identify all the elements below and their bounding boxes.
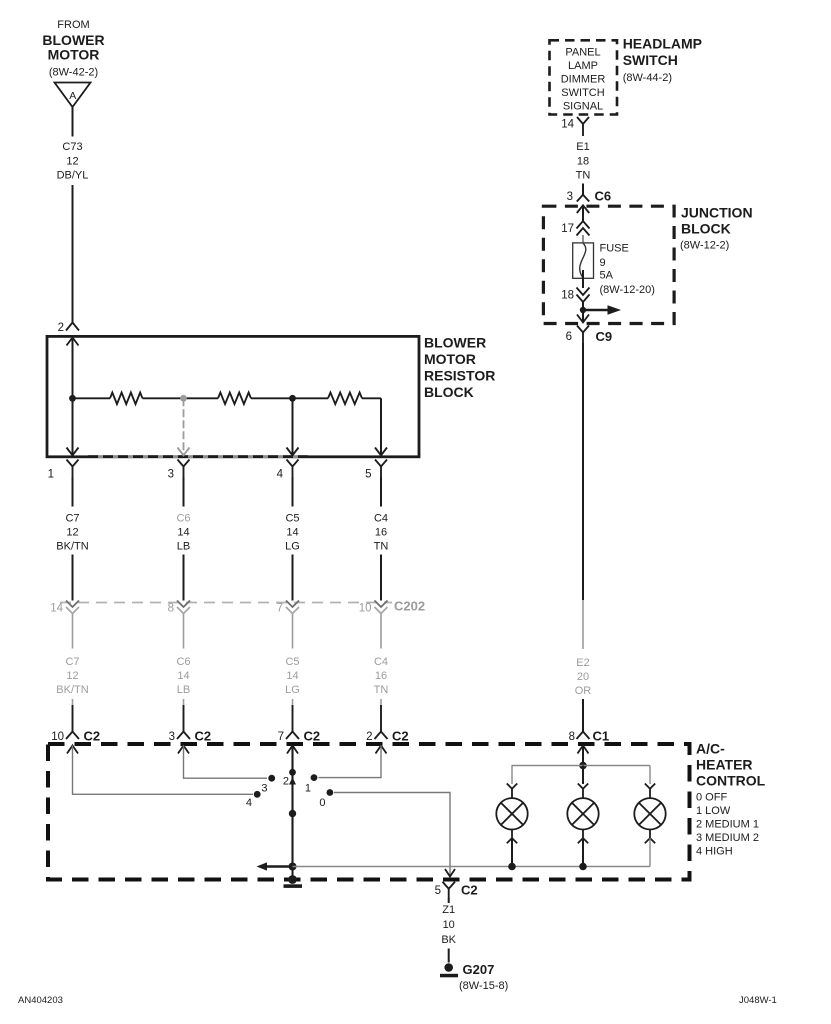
svg-text:18: 18 [561, 290, 574, 302]
svg-text:16: 16 [375, 527, 387, 539]
svg-text:1: 1 [305, 783, 311, 795]
wire C9 down (black) [582, 343, 584, 600]
switch contact 4 [246, 791, 261, 809]
wire C9 down (faded) [582, 600, 584, 649]
svg-text:C2: C2 [392, 729, 409, 744]
svg-text:PANEL: PANEL [565, 47, 600, 59]
pin 3 entry arrow [178, 746, 189, 754]
C202 pin 10 chevrons [359, 601, 388, 615]
wire C7 to pin 10 C2 (faded) [72, 699, 74, 705]
svg-text:17: 17 [561, 223, 574, 235]
pin 3 exit arrow (faded) [178, 448, 190, 456]
svg-text:8: 8 [168, 603, 174, 615]
connector C202 dashed line [60, 602, 392, 604]
svg-text:5: 5 [365, 469, 371, 481]
svg-text:C73: C73 [62, 141, 82, 153]
switch contact 0 [319, 789, 333, 809]
svg-text:HEADLAMP: HEADLAMP [623, 36, 702, 52]
C202 pin 14 chevrons [50, 601, 79, 615]
wire C4 below C202 (faded) [380, 614, 382, 649]
svg-text:1: 1 [48, 469, 54, 481]
svg-text:2: 2 [58, 322, 64, 334]
svg-text:MOTOR: MOTOR [424, 351, 476, 367]
svg-text:E1: E1 [576, 141, 589, 153]
svg-text:C6: C6 [176, 656, 190, 668]
C202 pin 7 chevrons [277, 601, 299, 615]
wire pin2 to contact 1 [319, 746, 382, 778]
svg-text:SIGNAL: SIGNAL [563, 101, 603, 113]
svg-text:4: 4 [246, 797, 252, 809]
svg-text:C6: C6 [595, 189, 612, 204]
illumination lamp 3 [634, 784, 665, 867]
drop wire to pin 3 (faded) [183, 398, 185, 455]
wire C6 to pin 3 C2 (faded) [183, 699, 185, 705]
label HEADLAMP SWITCH [623, 36, 702, 85]
wire C5 below C202 (faded) [292, 614, 294, 649]
wire label Z1 10 BK [441, 904, 456, 946]
pin 2 connector fork at resistor block [58, 322, 79, 334]
connector triangle A (from blower motor) [55, 83, 91, 108]
svg-text:2: 2 [366, 731, 372, 743]
wire pin18 to junction dot [582, 301, 584, 323]
svg-text:C4: C4 [374, 513, 388, 525]
svg-text:10: 10 [443, 919, 455, 931]
wire pin10 to contact 4 [73, 746, 254, 795]
svg-text:1 LOW: 1 LOW [696, 805, 731, 817]
label BLOWER MOTOR RESISTOR BLOCK [424, 335, 495, 401]
pin 1 exit arrow [67, 448, 79, 456]
wire C5 to pin 7 C2 (faded) [292, 699, 294, 705]
svg-text:G207: G207 [463, 962, 495, 977]
lamp 1 feed drop [511, 766, 513, 785]
C202 pin 8 chevrons [168, 601, 190, 615]
wire label C4 16 TN (faded) [374, 656, 389, 696]
drop wire to pin 1 [72, 398, 74, 455]
svg-text:3: 3 [168, 469, 174, 481]
svg-text:C7: C7 [65, 513, 79, 525]
pin 10 entry arrow [67, 746, 78, 754]
svg-text:12: 12 [66, 156, 78, 168]
resistor R3 [328, 393, 362, 405]
pin 4 exit arrow [287, 448, 299, 456]
wire label E2 20 OR (faded) [575, 657, 592, 697]
branch arrow right [583, 305, 621, 315]
wire label C73 12 DB/YL [57, 141, 89, 182]
junction block entry arrow [577, 205, 589, 213]
pin 5 fork below box [365, 460, 387, 481]
illumination lamp 2 [567, 784, 598, 867]
svg-text:RESISTOR: RESISTOR [424, 368, 495, 384]
wire entry to pin 17 [582, 205, 584, 221]
svg-text:5A: 5A [600, 270, 614, 282]
wire C73 upper segment [72, 107, 74, 137]
svg-text:14: 14 [50, 603, 63, 615]
svg-text:16: 16 [375, 670, 387, 682]
svg-text:LB: LB [177, 541, 190, 553]
wire fuse to pin 18 [582, 270, 584, 288]
svg-text:LG: LG [285, 541, 300, 553]
wire pin3 to contact 3 [184, 746, 268, 779]
pin 7 C2 fork [278, 729, 321, 744]
svg-text:10: 10 [51, 731, 64, 743]
wire C4 to C202 [380, 555, 382, 601]
switch contact 2 [283, 769, 296, 788]
wire Z1 lower [448, 949, 450, 963]
svg-text:AN404203: AN404203 [18, 995, 63, 1006]
resistor R1 [110, 393, 142, 405]
junction dot pin1 branch [69, 395, 76, 402]
pin 5 C2 fork below box [435, 882, 478, 898]
svg-text:6: 6 [566, 331, 572, 343]
svg-text:C2: C2 [304, 729, 321, 744]
svg-text:2: 2 [283, 776, 289, 788]
svg-text:LG: LG [285, 684, 300, 696]
wire label C4 16 TN [374, 513, 389, 553]
pin 2 entry arrow [376, 746, 387, 754]
label A/C-HEATER CONTROL [696, 741, 766, 858]
lamp 1 return junction dot [508, 863, 516, 871]
svg-text:0: 0 [319, 797, 325, 809]
svg-text:C2: C2 [84, 729, 101, 744]
svg-text:J048W-1: J048W-1 [739, 995, 777, 1006]
pin 14 fork below headlamp switch [561, 117, 589, 136]
wire C6 to C202 [183, 555, 185, 601]
switch contact 3 [261, 775, 275, 795]
ground G207 [440, 962, 508, 992]
pin 7 entry arrow [287, 746, 298, 754]
pin 2 entry arrow inside box [67, 338, 79, 346]
svg-text:A: A [69, 90, 76, 102]
svg-text:8: 8 [569, 731, 575, 743]
wire C6 upper segment [183, 477, 185, 507]
switch contact 1 [305, 774, 318, 794]
svg-text:TN: TN [374, 541, 389, 553]
svg-text:BK: BK [441, 934, 456, 946]
svg-text:C9: C9 [596, 329, 613, 344]
lamp return bus [293, 866, 651, 868]
svg-text:20: 20 [577, 671, 589, 683]
wiper pivot dot [289, 810, 296, 817]
resistor chain wire segments [73, 397, 382, 399]
ground branch arrow (wiper common) [257, 862, 293, 870]
junction dot pin4 branch [289, 395, 296, 402]
svg-text:3 MEDIUM 2: 3 MEDIUM 2 [696, 832, 759, 844]
label FROM BLOWER MOTOR [42, 19, 104, 79]
svg-text:2 MEDIUM 1: 2 MEDIUM 1 [696, 819, 759, 831]
label JUNCTION BLOCK [680, 205, 753, 252]
wire C7 to C202 [72, 555, 74, 601]
junction dot in junction block [580, 307, 586, 313]
lamp 2 feed drop [582, 766, 584, 785]
svg-text:(8W-12-20): (8W-12-20) [600, 284, 655, 296]
panel lamp dimmer switch signal box [550, 40, 618, 114]
pin 10 C2 fork [51, 729, 100, 744]
pin 6 fork below junction block (C9) [566, 326, 613, 345]
svg-text:C1: C1 [593, 729, 610, 744]
svg-text:BLOWER: BLOWER [424, 335, 486, 351]
pin 8 fork at C1 [569, 729, 610, 744]
svg-text:LAMP: LAMP [568, 60, 598, 72]
wire label E1 18 TN [576, 141, 591, 182]
svg-text:BK/TN: BK/TN [56, 684, 88, 696]
lamp feed junction dot [579, 762, 587, 770]
svg-text:(8W-42-2): (8W-42-2) [49, 67, 98, 79]
wire C4 to pin 2 C2 (faded) [380, 699, 382, 705]
lamp 2 return junction dot [579, 863, 587, 871]
wire C73 lower segment [72, 185, 74, 323]
svg-text:4: 4 [277, 469, 284, 481]
svg-text:12: 12 [66, 527, 78, 539]
svg-text:C6: C6 [176, 513, 190, 525]
svg-text:BLOCK: BLOCK [681, 221, 731, 237]
svg-text:3: 3 [567, 191, 573, 203]
lamp feed wire from pin 8 [582, 746, 584, 766]
pin 3 fork below box [168, 460, 190, 481]
drop wire to pin 4 [292, 398, 294, 455]
pin 5 C2 exit arrow [445, 869, 455, 877]
svg-text:MOTOR: MOTOR [48, 47, 100, 63]
wire label C6 14 LB [176, 513, 190, 553]
wire label C7 12 BK/TN (faded) [56, 656, 88, 696]
svg-text:Z1: Z1 [442, 904, 455, 916]
svg-text:TN: TN [374, 684, 389, 696]
svg-text:C7: C7 [65, 656, 79, 668]
svg-text:C2: C2 [195, 729, 212, 744]
wire pin2 to resistor chain [72, 338, 74, 399]
wire label C7 12 BK/TN [56, 513, 88, 553]
switch wiper wire pin7 to ground junction [291, 746, 293, 867]
pin 2 C2 fork [366, 729, 409, 744]
svg-text:HEATER: HEATER [696, 757, 753, 773]
wire C4 upper segment [380, 477, 382, 507]
pin 4 fork below box [277, 460, 299, 481]
svg-text:C202: C202 [394, 599, 425, 614]
svg-text:4 HIGH: 4 HIGH [696, 846, 733, 858]
wire C6 below C202 (faded) [183, 614, 185, 649]
junction dot pin3 branch (faded) [180, 395, 187, 402]
svg-text:BK/TN: BK/TN [56, 541, 88, 553]
wire label C5 14 LG [285, 513, 300, 553]
svg-text:SWITCH: SWITCH [561, 87, 604, 99]
svg-text:14: 14 [561, 119, 574, 131]
svg-text:3: 3 [169, 731, 175, 743]
case ground symbol at box edge [284, 867, 303, 888]
drop wire to pin 5 [380, 398, 382, 455]
pin 3 C2 fork [169, 729, 212, 744]
svg-text:3: 3 [261, 783, 267, 795]
svg-text:14: 14 [286, 670, 298, 682]
wire label C5 14 LG (faded) [285, 656, 300, 696]
svg-text:14: 14 [177, 527, 189, 539]
resistor R2 [218, 393, 251, 405]
wire pin17 to fuse [582, 235, 584, 243]
pin 8 entry arrow [578, 746, 589, 754]
svg-text:12: 12 [66, 670, 78, 682]
svg-text:(8W-15-8): (8W-15-8) [459, 980, 508, 992]
svg-text:C5: C5 [285, 656, 299, 668]
svg-text:7: 7 [278, 731, 284, 743]
wire label C6 14 LB (faded) [176, 656, 190, 696]
lamp feed bus [512, 765, 651, 767]
pin 18 double chevron [561, 288, 589, 303]
pin 1 fork below box [48, 460, 79, 481]
wire C7 upper segment [72, 477, 74, 507]
svg-text:DIMMER: DIMMER [561, 74, 606, 86]
svg-text:10: 10 [359, 603, 372, 615]
blower motor resistor block box [47, 336, 419, 456]
svg-text:DB/YL: DB/YL [57, 170, 89, 182]
svg-text:14: 14 [177, 670, 189, 682]
svg-text:OR: OR [575, 685, 592, 697]
svg-text:SWITCH: SWITCH [623, 52, 678, 68]
connector C6 pin 3 fork [567, 189, 612, 204]
svg-text:5: 5 [435, 885, 441, 897]
svg-text:14: 14 [286, 527, 298, 539]
illumination lamp 1 [496, 784, 527, 867]
svg-text:C4: C4 [374, 656, 388, 668]
junction block box [543, 206, 674, 323]
svg-text:7: 7 [277, 603, 283, 615]
wire C5 upper segment [292, 477, 294, 507]
lamp 3 feed drop [649, 766, 651, 785]
svg-text:FROM: FROM [57, 19, 89, 31]
svg-text:JUNCTION: JUNCTION [681, 205, 753, 221]
A/C heater control box [48, 744, 690, 880]
svg-text:(8W-12-2): (8W-12-2) [680, 240, 729, 252]
fuse 9 5A [573, 243, 655, 297]
wire E1 to C6 [582, 184, 584, 195]
svg-text:TN: TN [576, 170, 591, 182]
svg-text:(8W-44-2): (8W-44-2) [623, 72, 672, 84]
pin 17 double chevron [561, 221, 589, 236]
wire contact 0 to pin 5 C2 [334, 793, 450, 876]
svg-text:18: 18 [577, 156, 589, 168]
svg-text:CONTROL: CONTROL [696, 773, 766, 789]
ground junction dot [289, 863, 297, 871]
pin 5 exit arrow [375, 448, 387, 456]
junction block exit arrow [577, 315, 589, 323]
svg-text:0 OFF: 0 OFF [696, 792, 727, 804]
wire E2 to pin 8 C1 [582, 699, 584, 732]
wiper arrow pointing to contact 2 [289, 777, 296, 784]
svg-text:C2: C2 [461, 883, 478, 898]
svg-text:9: 9 [600, 257, 606, 269]
svg-text:FUSE: FUSE [600, 243, 629, 255]
wire C7 below C202 (faded) [72, 614, 74, 649]
svg-text:A/C-: A/C- [696, 741, 725, 757]
wire Z1 upper [448, 898, 450, 904]
wire C5 to C202 [292, 555, 294, 601]
svg-text:C5: C5 [285, 513, 299, 525]
svg-text:BLOCK: BLOCK [424, 384, 474, 400]
svg-text:E2: E2 [576, 657, 589, 669]
svg-text:LB: LB [177, 684, 190, 696]
